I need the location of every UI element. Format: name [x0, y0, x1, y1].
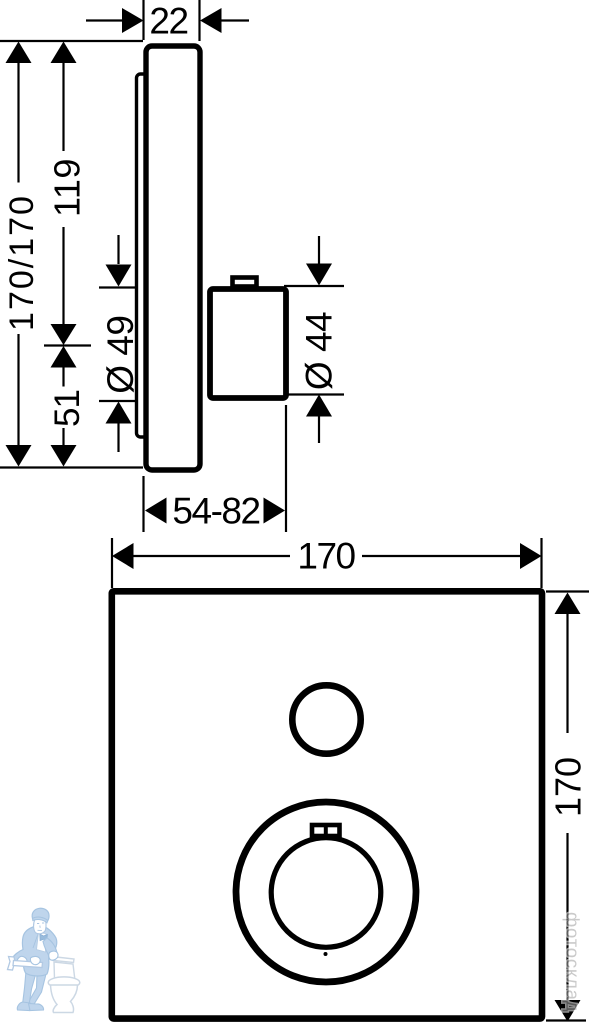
- top extension line to plate: [0, 40, 143, 42]
- plumber back leg: [28, 973, 46, 1005]
- knob index dot: [324, 952, 328, 956]
- dim 170 top: right extension line: [540, 538, 542, 588]
- svg-text:22: 22: [149, 1, 187, 42]
- svg-text:170/170: 170/170: [3, 194, 41, 331]
- dim 170/170 vertical line: [17, 62, 19, 446]
- select button (small circle): [292, 685, 360, 753]
- thermostat knob inner circle: [271, 838, 381, 948]
- thermostat knob outer circle: [236, 802, 416, 982]
- toilet tank: [54, 962, 75, 981]
- dim Ø44 bottom arrow with tail: [318, 416, 320, 443]
- dim 54-82 left arrow: [145, 498, 167, 524]
- dim 170 top: left arrow: [112, 543, 134, 569]
- svg-text:фотосклад: фотосклад: [563, 912, 584, 1012]
- wrench second hand knuckles: [30, 956, 40, 964]
- svg-text:119: 119: [47, 158, 88, 217]
- dim 51 bottom arrow: [51, 445, 77, 467]
- toilet tank lid: [52, 957, 74, 963]
- dim Ø49 top extension line: [99, 286, 136, 288]
- handle body (side view): [210, 289, 286, 398]
- pipe wrench handle: [13, 961, 43, 968]
- dim Ø44 bottom extension line: [284, 393, 344, 395]
- plumber face: [34, 917, 47, 934]
- dim 119 top arrow: [51, 42, 77, 64]
- plumber front leg: [23, 971, 37, 1005]
- pipe wrench head: [8, 957, 16, 971]
- dim 170 right: bottom arrow: [555, 1000, 581, 1022]
- svg-text:Ø 49: Ø 49: [100, 316, 141, 394]
- jacket lapel lines: [33, 934, 47, 948]
- dim 170 right: bottom extension line: [546, 1019, 586, 1021]
- dim 170 right: line: [566, 613, 568, 1001]
- dim 22: left arrow: [86, 19, 124, 21]
- toilet bowl body and base: [51, 985, 78, 1013]
- gloved hand holding wrench: [17, 956, 27, 965]
- svg-text:51: 51: [48, 390, 87, 427]
- dim 51 top arrow: [51, 346, 77, 368]
- svg-text:Ø 44: Ø 44: [299, 312, 340, 390]
- front plate square: [112, 591, 542, 1018]
- dim 54-82 right arrow: [264, 498, 286, 524]
- dim 170 top: left extension line: [111, 538, 113, 588]
- dim 170 right: top extension line: [546, 590, 589, 592]
- bottom extension line to plate: [0, 466, 143, 468]
- dim Ø49 top arrow with tail: [117, 235, 119, 264]
- toilet bowl rim: [48, 977, 80, 988]
- knob grip tab: [312, 825, 340, 836]
- dim 170/170 bottom arrow: [6, 445, 32, 467]
- svg-text:170: 170: [548, 757, 589, 817]
- dim 54-82 right extension line: [285, 405, 287, 532]
- dim 170 right: top arrow: [555, 593, 581, 615]
- plumber back shoe: [29, 1004, 44, 1011]
- dim Ø44 top extension line: [284, 285, 344, 287]
- shirt: [37, 933, 47, 953]
- dim 170 top: right arrow: [520, 543, 542, 569]
- bow tie: [40, 934, 48, 941]
- dim 22: left extension line: [142, 0, 144, 40]
- plumber jacket torso: [11, 926, 56, 976]
- dim boundary tick 119/51: [44, 344, 91, 346]
- dim 54-82 left extension line: [142, 476, 144, 532]
- dim 170/170 top arrow: [6, 42, 32, 64]
- plumber front shoe: [17, 1002, 30, 1011]
- dim 22: right arrow: [219, 19, 249, 21]
- svg-text:54-82: 54-82: [172, 491, 259, 532]
- dim Ø44 top arrow with tail: [318, 236, 320, 264]
- face features: [37, 923, 44, 931]
- dim 22: right extension line: [198, 0, 200, 41]
- dim 51 line segments: [62, 367, 64, 446]
- plumber arm resting on tank: [43, 938, 57, 958]
- svg-text:170: 170: [297, 536, 355, 577]
- cap brim: [33, 917, 48, 923]
- handle clip tab (side view): [233, 278, 257, 287]
- dim Ø49 bottom arrow with tail: [117, 423, 119, 452]
- gloved hand on tank top: [49, 951, 58, 960]
- dim 170 top: line: [133, 555, 521, 557]
- dim Ø49 bottom extension line: [99, 400, 136, 402]
- dim 119 bottom arrow: [51, 324, 77, 345]
- dim 119 vertical line: [62, 62, 64, 325]
- plumber cap: [32, 908, 49, 920]
- watermark plumber logo: [8, 908, 80, 1012]
- escutcheon plate (side view slab): [146, 46, 200, 470]
- back flange (thin plate behind escutcheon, side view): [137, 74, 157, 437]
